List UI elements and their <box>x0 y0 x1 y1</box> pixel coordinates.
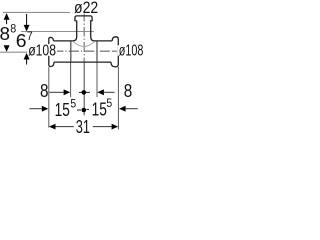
run pipe top wall <box>53 40 72 42</box>
run pipe centerline (dash-dot) <box>57 50 117 52</box>
svg-text:7: 7 <box>27 31 33 43</box>
extension line run right end face (vertical) <box>117 67 119 130</box>
dim 15.5 right arrow and tail <box>119 106 126 112</box>
svg-text:15: 15 <box>55 99 70 120</box>
svg-text:8: 8 <box>40 80 49 101</box>
branch socket bead step <box>74 20 77 22</box>
branch socket bead rim <box>75 16 92 21</box>
dim 15.5 left tail and arrow <box>30 108 43 110</box>
svg-text:5: 5 <box>70 98 76 110</box>
dim 8 left line and arrow <box>49 91 63 93</box>
junction dot row A <box>79 91 90 93</box>
dim 6.7 arrow up to axis line <box>24 53 30 60</box>
dim 6.7 arrow down to socket line <box>26 14 28 25</box>
branch left wall with fillet into run <box>73 21 77 41</box>
label ø108 right (white backing breaks pipe face line) <box>118 45 126 56</box>
svg-text:31: 31 <box>76 116 90 136</box>
dim 31 right arrow <box>93 126 112 128</box>
branch centerline (dash-dot vertical) <box>83 14 85 62</box>
svg-text:ø22: ø22 <box>74 0 98 17</box>
saddle intersection arc <box>73 41 95 46</box>
branch right wall with fillet into run <box>91 21 95 41</box>
svg-text:6: 6 <box>16 30 27 51</box>
dim 8 right line and arrow <box>97 89 104 95</box>
svg-text:8: 8 <box>124 80 133 101</box>
extension line top (branch end plane) <box>3 11 70 13</box>
svg-text:8: 8 <box>0 23 10 44</box>
run pipe left end face and press bead <box>49 37 54 66</box>
svg-text:15: 15 <box>92 99 107 120</box>
extension line right insertion depth below pipe <box>96 62 98 97</box>
svg-text:5: 5 <box>106 98 112 110</box>
junction dot row B <box>77 109 81 111</box>
extension line run axis left (y52) <box>0 51 27 53</box>
dim 31 left arrow <box>49 124 56 130</box>
run pipe bottom wall <box>54 61 111 63</box>
label ø108 left (white backing breaks pipe face line) <box>44 44 57 56</box>
svg-text:ø108: ø108 <box>28 43 56 60</box>
insertion depth mark left (inside run) <box>70 41 72 61</box>
extension line run left end face (vertical) <box>48 67 50 128</box>
run pipe right end face and press bead <box>111 37 118 67</box>
svg-text:ø108: ø108 <box>119 42 144 59</box>
dim 8.8 arrow down <box>4 45 10 52</box>
branch centerline extension below run <box>83 62 85 115</box>
dim 8.8 arrow up <box>4 13 10 20</box>
extension line socket depth (y32) <box>21 31 94 33</box>
insertion depth mark right (inside run) <box>96 41 98 61</box>
extension line left insertion depth below pipe <box>70 62 72 97</box>
